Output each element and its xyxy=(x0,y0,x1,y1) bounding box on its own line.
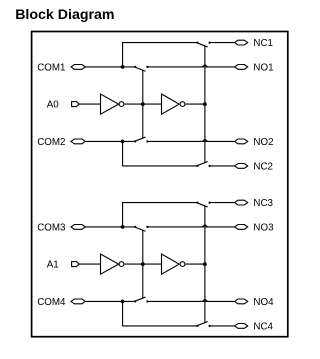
wire COM4 to switch S2C pole xyxy=(85,300,135,302)
wire COM1 junction up to NC1 switch xyxy=(123,43,198,67)
svg-text:Block Diagram: Block Diagram xyxy=(15,7,114,23)
switch S2D (NC4) arm and contacts xyxy=(196,322,210,327)
wire inverter U2B output to control bus xyxy=(185,263,204,265)
svg-text:NC3: NC3 xyxy=(253,198,273,209)
node COM3 junction xyxy=(121,225,125,229)
wire A1 to inverter U2A input xyxy=(79,263,100,265)
svg-text:NO4: NO4 xyxy=(253,297,274,308)
wire switch S1B to NC1 pin xyxy=(210,42,235,44)
wire inverter U1B output to control bus xyxy=(185,103,204,105)
wire COM4 junction down to NC4 switch xyxy=(123,301,198,326)
wire switch S2B to NC3 pin xyxy=(210,202,235,204)
svg-text:COM3: COM3 xyxy=(37,222,66,233)
inverter U2A xyxy=(101,254,124,274)
pin NC4 xyxy=(235,321,274,332)
title Block Diagram xyxy=(15,7,114,23)
pin NO1 xyxy=(235,62,274,73)
wire control net U1B output bus (vertical) xyxy=(204,46,206,162)
svg-text:NC1: NC1 xyxy=(253,38,273,49)
pin NC2 xyxy=(235,161,273,172)
svg-text:NC2: NC2 xyxy=(253,161,273,172)
wire A0 to inverter U1A input xyxy=(79,103,100,105)
switch S2A (NO3) arm and contacts xyxy=(134,226,148,231)
svg-text:NC4: NC4 xyxy=(253,321,273,332)
pin NO3 xyxy=(235,222,274,233)
node U1B output junction xyxy=(203,102,207,106)
node COM2 junction xyxy=(121,140,125,144)
inverter U2B xyxy=(162,254,185,274)
wire switch S1A to NO1 pin (hop over control line) xyxy=(147,65,234,67)
switch S2B (NC3) arm and contacts xyxy=(196,202,210,207)
svg-text:COM2: COM2 xyxy=(37,137,65,148)
wire switch S2C to NO4 pin (hop over control line) xyxy=(147,299,234,301)
node COM4 junction xyxy=(121,300,125,304)
pin NC1 xyxy=(235,38,273,49)
pin NO4 xyxy=(235,297,274,308)
switch S2C (NO4) arm and contacts xyxy=(134,297,148,302)
wire inverter U1A output to inverter U1B input xyxy=(124,103,161,105)
svg-text:NO1: NO1 xyxy=(253,62,273,73)
wire COM1 to switch S1A pole xyxy=(85,66,135,68)
svg-text:A1: A1 xyxy=(47,260,59,271)
node U2B output junction xyxy=(203,262,207,266)
svg-text:COM1: COM1 xyxy=(37,62,65,73)
wire COM2 junction down to NC2 switch xyxy=(123,141,198,166)
inverter U1B xyxy=(162,94,185,114)
svg-text:NO2: NO2 xyxy=(253,137,273,148)
wire COM2 to switch S1C pole xyxy=(85,140,135,142)
pin COM1 xyxy=(37,62,85,73)
wire switch S1D to NC2 pin xyxy=(210,165,235,167)
wire control net U2A output bus (vertical) xyxy=(142,231,144,298)
node U2A output junction xyxy=(141,262,145,266)
node U1A output junction xyxy=(141,102,145,106)
switch S1B (NC1) arm and contacts xyxy=(196,42,210,47)
switch S1A (NO1) arm and contacts xyxy=(134,66,148,71)
pin COM2 xyxy=(37,137,85,148)
pin NO2 xyxy=(235,137,274,148)
switch S1D (NC2) arm and contacts xyxy=(196,162,210,167)
wire switch S1C to NO2 pin (hop over control line) xyxy=(147,139,234,141)
svg-text:A0: A0 xyxy=(47,100,60,111)
svg-text:NO3: NO3 xyxy=(253,222,274,233)
wire switch S2A to NO3 pin (hop over control line) xyxy=(147,225,234,227)
wire control net U1A output bus (vertical) xyxy=(142,71,144,138)
pin COM3 xyxy=(37,222,85,233)
node COM1 junction xyxy=(121,65,125,69)
wire COM3 to switch S2A pole xyxy=(85,226,135,228)
svg-text:COM4: COM4 xyxy=(37,297,66,308)
pin NC3 xyxy=(235,198,274,209)
wire switch S2D to NC4 pin xyxy=(210,325,235,327)
wire inverter U2A output to inverter U2B input xyxy=(124,263,161,265)
inverter U1A xyxy=(101,94,124,114)
wire control net U2B output bus (vertical) xyxy=(204,206,206,322)
switch S1C (NO2) arm and contacts xyxy=(134,137,148,142)
wire COM3 junction up to NC3 switch xyxy=(123,203,198,227)
pin COM4 xyxy=(37,297,85,308)
pin A1 xyxy=(47,260,79,271)
pin A0 xyxy=(47,100,79,111)
